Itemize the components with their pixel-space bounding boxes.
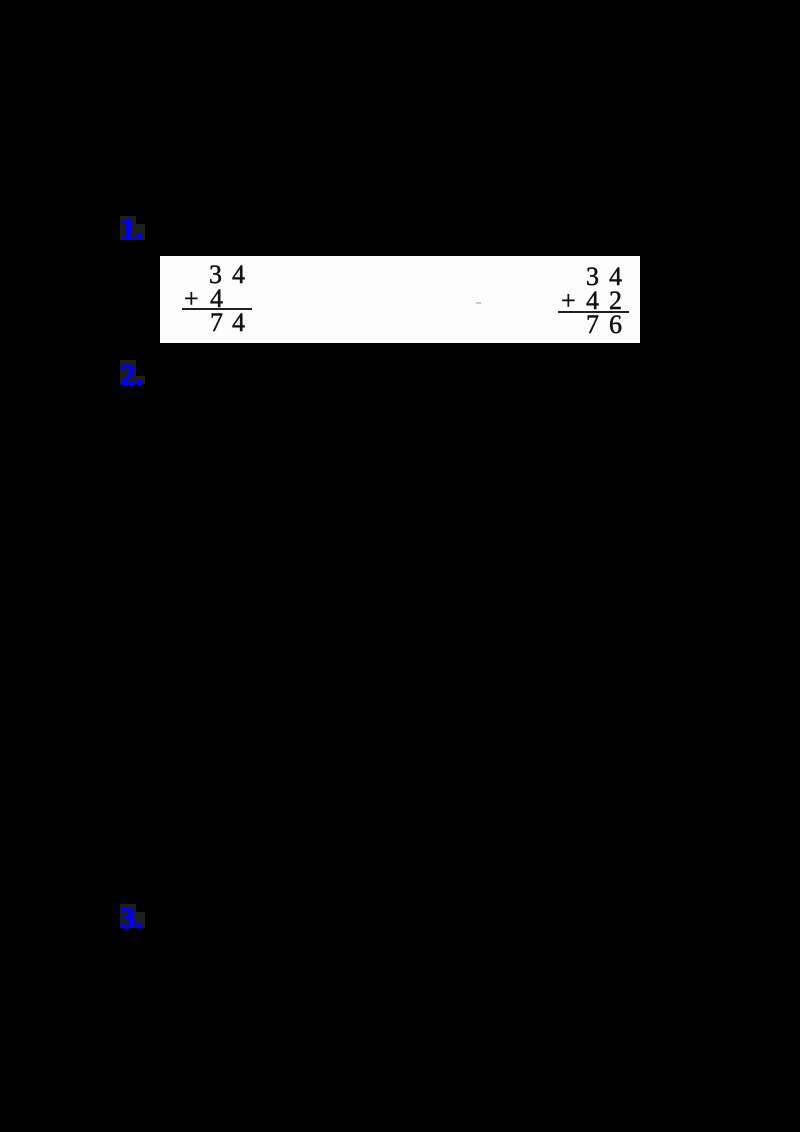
sum rule line [558, 311, 629, 313]
faint speck in middle of panel [476, 302, 481, 304]
plus sign [561, 288, 576, 314]
question number 2 [120, 363, 143, 387]
question number 1 [120, 217, 143, 241]
question number 3 highlight box [120, 904, 136, 928]
digit 7 [586, 312, 599, 338]
digit 4 second row [586, 288, 599, 314]
question number 2 highlight box [120, 360, 136, 384]
question number 3 [120, 906, 143, 930]
digit 3 [586, 264, 599, 290]
digit 7 [210, 310, 223, 336]
white answer panel [160, 256, 640, 343]
plus sign [184, 286, 199, 312]
digit 2 second row [609, 288, 622, 314]
digit 4 top row [232, 262, 245, 288]
digit 4 bottom row [232, 310, 245, 336]
digit 4 second row [210, 286, 223, 312]
digit 4 top row [609, 264, 622, 290]
digit 6 bottom row [609, 312, 622, 338]
sum rule line [182, 308, 252, 310]
digit 3 [209, 262, 222, 288]
question number 1 highlight box [120, 216, 136, 240]
